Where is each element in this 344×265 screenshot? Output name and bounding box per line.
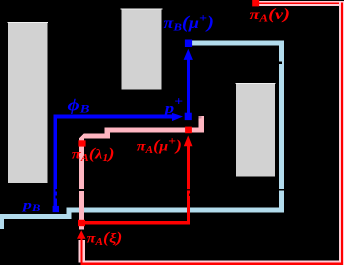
red square marker pi_A(lambda1) [78, 140, 85, 146]
red mu+ path: horizontal from xi square to x=188.6 [81, 221, 190, 225]
light blue curve: top horizontal from pi_B(mu+) square to right [192, 41, 284, 46]
red nu loop: bottom red core [81, 262, 343, 265]
light blue curve: step jog near x=69 [67, 207, 72, 219]
svg-text:πA(ν): πA(ν) [250, 6, 291, 25]
upper tick on light blue right vertical [279, 61, 282, 64]
light blue curve: bottom horizontal (lower level left) [0, 214, 72, 219]
red arrow head up to xi square [77, 230, 86, 239]
red nu loop: left stem red core [81, 239, 83, 265]
rectangle R2 (top middle gray band) [121, 9, 161, 90]
red nu loop: right pale halo [339, 1, 344, 265]
blue arrow head into p+ square [172, 113, 183, 121]
blue phi_B path: horizontal at y=116.6 [54, 115, 173, 119]
light blue curve: bottom horizontal (upper level) [69, 207, 284, 212]
red mu+ path: vertical up through light blue [187, 143, 190, 225]
rectangle R3 (right middle gray band) [236, 83, 275, 176]
rectangle R1 (tall left gray band) [8, 22, 48, 183]
pink curve: left horizontal (level y=135.8) [80, 133, 110, 138]
blue arrow head up to pi_B square [184, 49, 193, 60]
blue square marker pi_B(mu+) [185, 40, 192, 48]
blue square marker p+ [185, 113, 192, 120]
tick on pink vertical [79, 189, 84, 191]
blue vertical from p+ square up to pi_B square [187, 58, 190, 113]
pink curve: left long vertical down to xi [79, 134, 84, 230]
red nu loop: top red core [259, 2, 343, 4]
svg-text:πA(λ1): πA(λ1) [72, 145, 115, 164]
red nu loop: left stem pale halo [78, 240, 85, 261]
notches on blue vertical [55, 189, 57, 191]
ticks on red vertical [187, 189, 190, 190]
red square marker pi_A(xi) [78, 220, 85, 226]
pink curve: corner bevel top-left [79, 133, 84, 138]
red nu loop: bottom pale halo [78, 261, 341, 263]
light blue curve: right vertical [279, 41, 284, 213]
red nu loop: right red core [341, 2, 343, 265]
blue phi_B path: vertical at x=55.3 [54, 115, 58, 207]
red square marker pi_A(nu) [252, 0, 259, 6]
pink curve: right vertical tip near p+ [199, 116, 204, 132]
light blue curve: left end vertical drop [0, 214, 4, 229]
tick on light blue right vertical [279, 189, 284, 191]
red square marker pi_A(mu+) [185, 127, 192, 134]
red nu loop: top pale halo [259, 1, 344, 6]
svg-text:πA(ξ): πA(ξ) [87, 230, 123, 249]
blue square marker p_B [53, 206, 59, 212]
red arrow head up to mu+ square [184, 135, 193, 146]
pink curve: rose tip pixel [199, 116, 202, 119]
pink curve: mid horizontal (level y=130.1) [106, 128, 205, 133]
pink curve: jog near x=107 [105, 128, 110, 139]
